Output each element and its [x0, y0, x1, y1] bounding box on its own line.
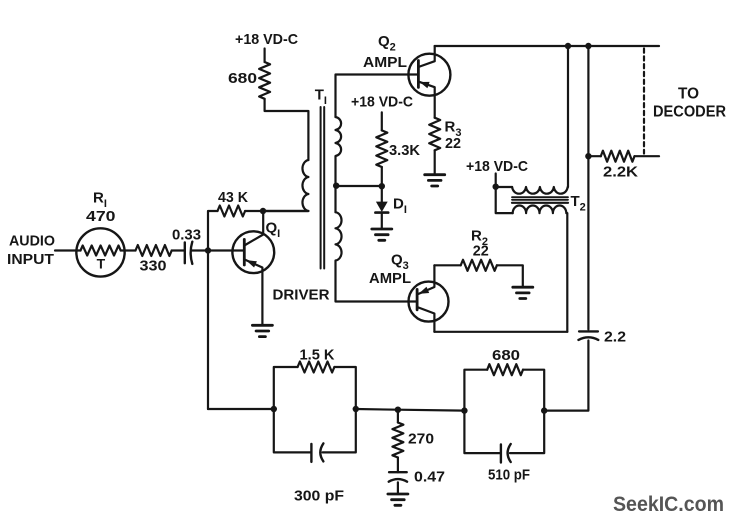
svg-text:INPUT: INPUT — [7, 251, 54, 268]
svg-text:T: T — [97, 256, 106, 272]
svg-text:+18 VD-C: +18 VD-C — [351, 94, 413, 111]
svg-text:DRIVER: DRIVER — [273, 287, 330, 304]
svg-text:270: 270 — [408, 431, 434, 448]
svg-text:TO: TO — [678, 86, 699, 103]
svg-text:AMPL: AMPL — [369, 270, 411, 287]
svg-text:43 K: 43 K — [218, 189, 248, 206]
svg-text:330: 330 — [140, 258, 167, 275]
svg-text:470: 470 — [86, 208, 116, 225]
svg-text:680: 680 — [492, 347, 520, 364]
svg-text:22: 22 — [445, 135, 461, 152]
svg-text:+18 VD-C: +18 VD-C — [466, 158, 528, 175]
svg-text:0.47: 0.47 — [414, 469, 445, 486]
svg-text:+18 VD-C: +18 VD-C — [235, 31, 298, 48]
svg-text:AMPL: AMPL — [363, 54, 407, 71]
svg-text:DECODER: DECODER — [653, 104, 726, 121]
svg-text:2.2: 2.2 — [604, 329, 626, 346]
svg-text:510 pF: 510 pF — [488, 467, 530, 484]
svg-text:680: 680 — [228, 70, 257, 87]
svg-text:0.33: 0.33 — [172, 227, 201, 244]
svg-text:2.2K: 2.2K — [603, 164, 638, 181]
svg-text:SeekIC.com: SeekIC.com — [613, 493, 724, 516]
svg-text:1.5 K: 1.5 K — [300, 347, 335, 364]
svg-text:AUDIO: AUDIO — [9, 233, 55, 250]
svg-text:300 pF: 300 pF — [294, 488, 344, 505]
svg-text:22: 22 — [473, 243, 489, 260]
svg-text:3.3K: 3.3K — [389, 142, 420, 159]
